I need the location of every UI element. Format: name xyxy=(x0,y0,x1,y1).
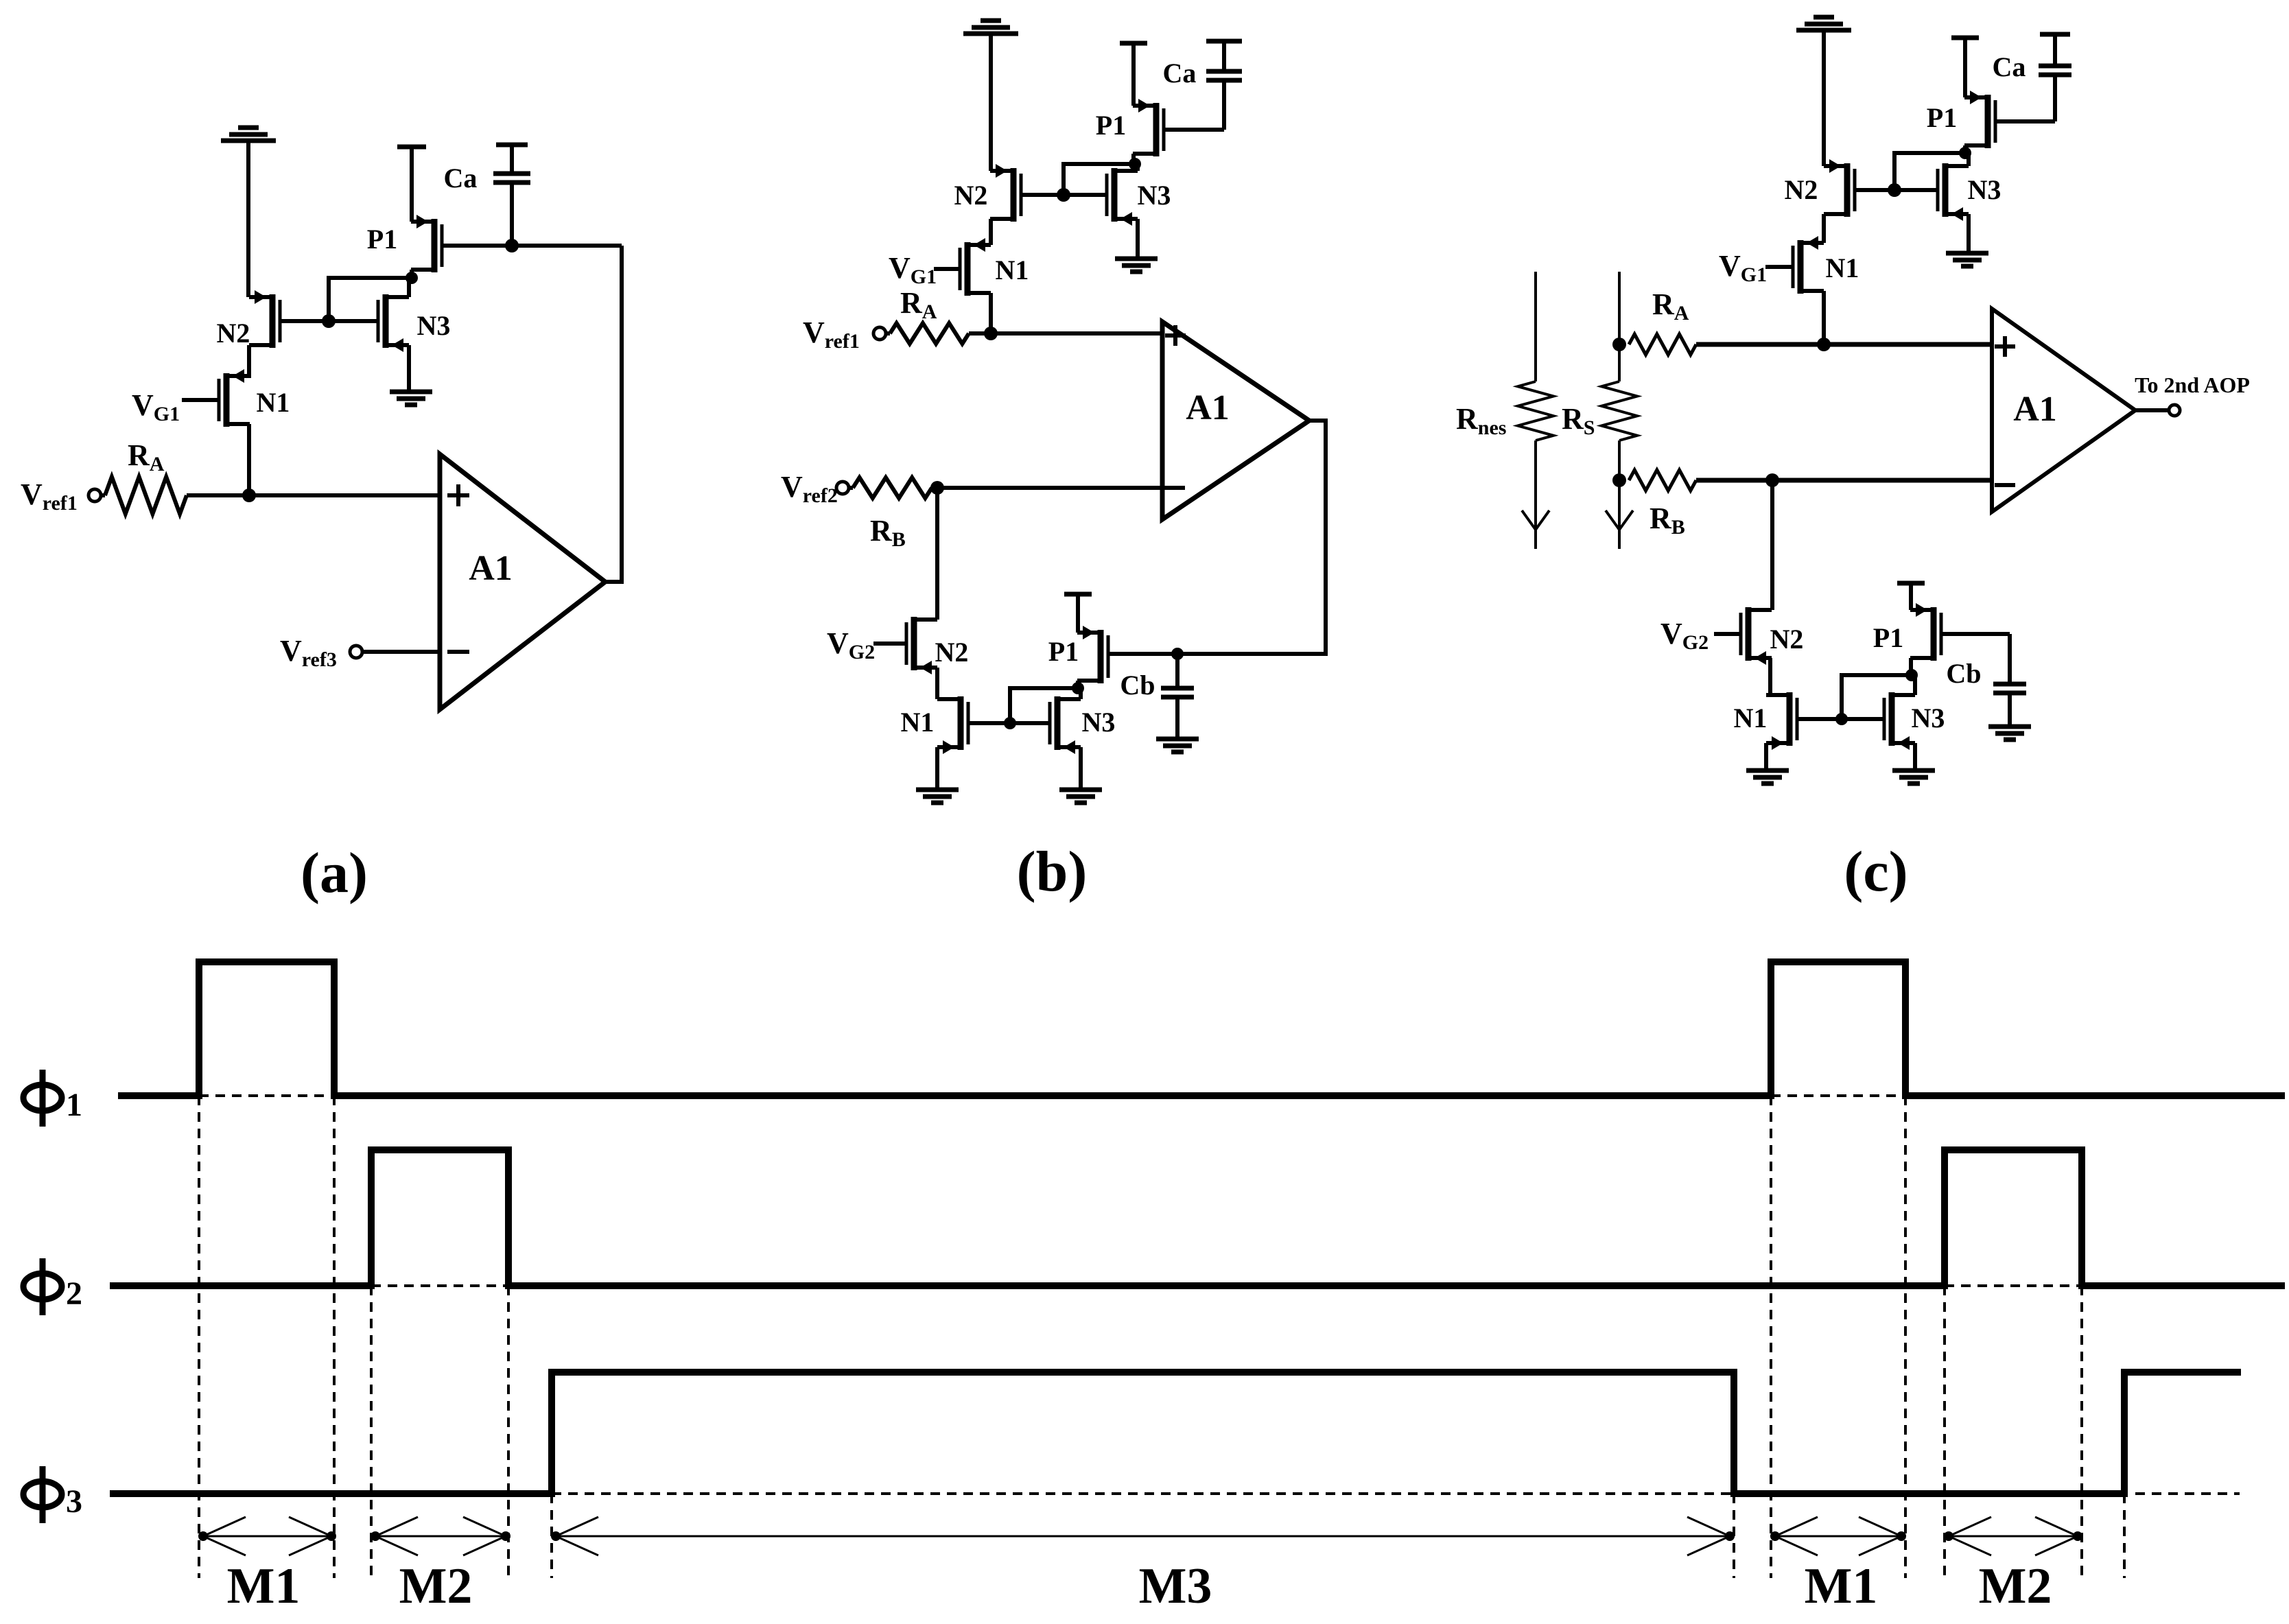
transistor P1 top (c) xyxy=(1964,91,1995,148)
ground under Cb (c) xyxy=(1988,727,2031,740)
terminal Vref3 (a) xyxy=(350,646,362,658)
dashed marker line at phi1 pulse1 fall xyxy=(333,1096,336,1578)
svg-text:Ca: Ca xyxy=(1163,58,1197,89)
label N1 top (c) xyxy=(1826,252,1859,283)
label A1 (a) xyxy=(469,549,513,588)
resistor RB (c) xyxy=(1629,470,1696,491)
svg-text:N3: N3 xyxy=(1082,707,1116,738)
svg-text:P1: P1 xyxy=(1873,622,1903,653)
wire - N3 drain up to node (c) xyxy=(1913,675,1917,695)
terminal Vref1 (a) xyxy=(89,489,101,502)
wire - P1 source up to supply (c) xyxy=(1963,40,1967,97)
ground under N3 bottom (b) xyxy=(1059,790,1102,803)
wire - N3 drain up to node (b) xyxy=(1079,688,1083,699)
power rail symbol (inverted ground) top of (a) xyxy=(221,128,276,141)
label N1 bottom (c) xyxy=(1734,703,1768,733)
svg-text:Cb: Cb xyxy=(1120,670,1155,701)
op-amp A1 (b) xyxy=(1162,322,1309,519)
transistor N1 bottom (c) xyxy=(1766,692,1797,750)
label N1 bottom (b) xyxy=(901,707,935,738)
dashed marker line at phi1 pulse2 rise xyxy=(1770,1096,1772,1578)
supply T-bar above P1 top (c) xyxy=(1951,36,1979,40)
svg-text:Ca: Ca xyxy=(444,163,478,193)
svg-text:P1: P1 xyxy=(1927,102,1957,133)
label phi1 xyxy=(23,1070,82,1127)
wire - VG2 to N2 gate (b) xyxy=(873,642,906,646)
wire - gate node up and over to P1 drain (a) xyxy=(329,278,412,321)
wire - op-amp output feedback down to bottom block (b) xyxy=(1108,421,1326,654)
wire - N1 source to ground (b) xyxy=(935,747,939,788)
supply T-bar above Ca (a) xyxy=(496,143,528,148)
wire - rail to N2 drain (a) xyxy=(246,141,250,297)
label N3 bottom (c) xyxy=(1912,703,1945,733)
terminal Vref1 (b) xyxy=(873,327,886,340)
label Vref1 (b) xyxy=(803,316,860,353)
dashed marker line at phi3 second rise xyxy=(2123,1494,2126,1578)
wire - N3 source down to ground (c) xyxy=(1967,214,1971,251)
label RA (b) xyxy=(900,286,937,323)
label P1 top (b) xyxy=(1096,110,1126,141)
svg-text:2: 2 xyxy=(66,1275,82,1312)
wire - P1 gate to Cb (c) xyxy=(1941,632,2010,636)
wire - RB node down to N2 drain (b) xyxy=(935,488,939,620)
label N1 top (b) xyxy=(996,255,1029,285)
svg-text:N1: N1 xyxy=(901,707,935,738)
dashed marker line at phi2 pulse1 fall xyxy=(507,1286,510,1578)
label RA (c) xyxy=(1652,287,1689,325)
resistor Rnes (c) xyxy=(1518,272,1553,549)
dashed marker line at phi3 fall xyxy=(1733,1494,1735,1578)
transistor N2 top (b) xyxy=(990,164,1021,222)
wire - N1 source to ground (c) xyxy=(1764,743,1768,768)
wire - node to op-amp + input (b) xyxy=(969,331,1162,336)
wire - N2 source to N1 drain (a) xyxy=(247,345,251,378)
label VG2 (c) xyxy=(1660,617,1709,654)
supply T-bar above P1 (a) xyxy=(397,145,426,150)
svg-text:M2: M2 xyxy=(399,1558,473,1614)
wire - minus node down to N2 drain (c) xyxy=(1770,480,1774,610)
caption (c) xyxy=(1844,840,1907,904)
transistor N1 (a) xyxy=(219,369,250,427)
ground under N3 top (c) xyxy=(1946,253,1988,266)
wire - N3 source down to ground (a) xyxy=(407,345,411,390)
label RS (c) xyxy=(1562,402,1595,439)
wire - N3 source to ground (c) xyxy=(1913,743,1917,768)
junction dot RA node (c) xyxy=(1612,338,1626,351)
ground under N3 (a) xyxy=(390,392,432,405)
power rail symbol (inverted ground) top of (b) xyxy=(963,21,1018,34)
svg-text:N1: N1 xyxy=(1734,703,1768,733)
svg-text:N1: N1 xyxy=(257,387,290,418)
wire - RB node to op-amp - input (b) xyxy=(932,486,1162,490)
svg-text:N2: N2 xyxy=(217,318,250,349)
svg-text:(a): (a) xyxy=(301,841,368,905)
svg-text:Cb: Cb xyxy=(1946,658,1981,689)
label RA (a) xyxy=(128,438,165,475)
transistor N3 bottom (b) xyxy=(1050,696,1081,754)
wire - VG1 to N1 gate (c) xyxy=(1765,265,1793,269)
wire - N3 drain up (a) xyxy=(407,278,411,297)
label To 2nd AOP (c) xyxy=(2135,373,2250,397)
svg-text:N1: N1 xyxy=(1826,252,1859,283)
svg-text:(b): (b) xyxy=(1017,840,1088,904)
transistor N2 bottom (b) xyxy=(906,617,937,674)
wire - N2 source to N1 drain (c) xyxy=(1822,214,1826,243)
label Ca (b) xyxy=(1163,58,1197,89)
svg-text:A1: A1 xyxy=(469,549,513,588)
transistor N3 top (b) xyxy=(1107,168,1138,226)
transistor N1 bottom (b) xyxy=(937,696,968,754)
wire - N1 source down to + node (c) xyxy=(1822,291,1826,344)
label Rnes (c) xyxy=(1456,402,1506,439)
measurement arrow M2 xyxy=(371,1517,510,1555)
supply T-bar above P1 bottom (b) xyxy=(1064,592,1092,597)
label Ca (a) xyxy=(444,163,478,193)
resistor RB (b) xyxy=(849,478,932,498)
measurement arrow M3 xyxy=(551,1517,1735,1555)
wire - P1 drain down to node (b) xyxy=(1131,154,1136,164)
label P1 bottom (b) xyxy=(1048,636,1079,667)
capacitor Cb (b) xyxy=(1161,648,1194,737)
wire - RB to op-amp - input (c) xyxy=(1696,478,1992,483)
supply T-bar above Ca (c) xyxy=(2040,32,2070,37)
wire - N2 source to N1 drain (b) xyxy=(989,219,993,245)
transistor N3 (a) xyxy=(378,294,409,352)
wire - rail to N2 drain (c) xyxy=(1822,30,1826,166)
resistor RA (c) xyxy=(1629,334,1696,355)
label N3 (a) xyxy=(417,310,451,341)
measurement arrow M2 second xyxy=(1944,1517,2082,1555)
label N2 top (b) xyxy=(954,180,988,211)
capacitor Cb (c) xyxy=(1993,634,2026,725)
svg-text:P1: P1 xyxy=(367,224,397,255)
junction dot gate node (a) xyxy=(322,314,336,328)
capacitor Ca (b) xyxy=(1206,43,1242,130)
wire - VG1 to N1 gate (a) xyxy=(182,398,219,402)
label Ca (c) xyxy=(1993,51,2026,82)
wire - P1 gate to Ca (b) xyxy=(1164,128,1224,132)
label RB (c) xyxy=(1650,502,1685,539)
svg-text:N1: N1 xyxy=(996,255,1029,285)
transistor N1 top (c) xyxy=(1793,236,1824,294)
phi2 dashed baseline under pulses xyxy=(371,1284,2082,1287)
ground under N3 (b) xyxy=(1115,259,1158,272)
transistor P1 (a) xyxy=(411,215,442,272)
transistor N2 (a) xyxy=(249,290,280,348)
transistor P1 bottom (b) xyxy=(1077,626,1108,683)
label P1 top (c) xyxy=(1927,102,1957,133)
wire - gate node N2-N3 (a) xyxy=(280,319,378,323)
wire - N3 drain up (c) xyxy=(1967,153,1971,166)
junction dot - node (c) xyxy=(1765,473,1779,487)
junction dot node (b) xyxy=(984,327,998,340)
wire - P1 drain down (b) xyxy=(1072,681,1084,694)
wire - RA to op-amp + input (c) xyxy=(1696,342,1992,347)
wire - P1 gate to Ca (c) xyxy=(1995,119,2055,123)
label A1 (b) xyxy=(1186,388,1230,427)
transistor N2 top (c) xyxy=(1824,159,1855,217)
transistor N1 top (b) xyxy=(960,238,991,296)
gate loop bottom (b) xyxy=(968,688,1078,729)
wire - N2 source to N1 drain (b) xyxy=(935,668,939,699)
junction dot RB node (b) xyxy=(930,481,944,495)
label phi2 xyxy=(23,1258,82,1315)
label Vref1 (a) xyxy=(21,478,78,515)
transistor N3 top (c) xyxy=(1938,163,1969,221)
svg-text:N2: N2 xyxy=(1770,624,1804,655)
wire - N3 drain up (b) xyxy=(1136,164,1140,171)
junction dot RB node (c) xyxy=(1612,473,1626,487)
svg-text:N2: N2 xyxy=(935,637,969,668)
wire - P1 drain down to node (c) xyxy=(1963,145,1967,153)
caption (b) xyxy=(1017,840,1088,904)
wire - VG1 to N1 gate (b) xyxy=(934,267,960,271)
junction node at N1 source / RA (a) xyxy=(242,489,256,502)
label Cb (b) xyxy=(1120,670,1155,701)
svg-text:M1: M1 xyxy=(1805,1558,1878,1614)
dashed marker line at phi1 pulse1 rise xyxy=(198,1096,200,1578)
caption (a) xyxy=(301,841,368,905)
ground under N1 bottom (c) xyxy=(1746,770,1789,784)
svg-text:1: 1 xyxy=(66,1087,82,1123)
terminal Vref2 (b) xyxy=(836,482,849,494)
transistor P1 top (b) xyxy=(1133,99,1164,156)
label VG1 (a) xyxy=(132,388,180,425)
svg-text:N2: N2 xyxy=(1785,174,1818,205)
label M3 xyxy=(1139,1558,1212,1614)
label Cb (c) xyxy=(1946,658,1981,689)
label VG1 (b) xyxy=(889,251,937,288)
measurement arrow M1 xyxy=(198,1517,336,1555)
wire - P1 source up to supply (b) xyxy=(1131,45,1136,106)
label Vref2 (b) xyxy=(781,470,838,507)
wire - feedback from op-amp output (a) xyxy=(605,246,622,582)
svg-text:M3: M3 xyxy=(1139,1558,1212,1614)
svg-text:3: 3 xyxy=(66,1483,82,1520)
svg-text:A1: A1 xyxy=(1186,388,1230,427)
supply T-bar above P1 (b) xyxy=(1120,41,1147,46)
svg-text:N2: N2 xyxy=(954,180,988,211)
measurement arrow M1 second xyxy=(1770,1517,1906,1555)
svg-text:M1: M1 xyxy=(227,1558,301,1614)
label N3 bottom (b) xyxy=(1082,707,1116,738)
svg-text:N3: N3 xyxy=(1968,174,2002,205)
phi1 dashed baseline under pulses xyxy=(199,1094,1905,1097)
wire - N3 source to ground (b) xyxy=(1079,747,1083,788)
svg-text:N3: N3 xyxy=(1912,703,1945,733)
wire - N1 source down to node (b) xyxy=(989,293,993,333)
svg-text:P1: P1 xyxy=(1096,110,1126,141)
phi2 waveform xyxy=(110,1150,2285,1286)
label M1 xyxy=(227,1558,301,1614)
junction dot + node (c) xyxy=(1817,338,1831,351)
label RB (b) xyxy=(870,514,906,551)
transistor N2 bottom (c) xyxy=(1741,607,1772,665)
label M2 xyxy=(399,1558,473,1614)
wire - P1 source up to supply (a) xyxy=(410,147,414,222)
phi3 dashed baseline under high segments xyxy=(552,1492,2240,1495)
wire - P1 source to supply (b) xyxy=(1076,596,1080,633)
label M2 second xyxy=(1979,1558,2052,1614)
op-amp A1 (c) xyxy=(1992,309,2135,512)
transistor N3 bottom (c) xyxy=(1884,692,1915,750)
label N3 top (c) xyxy=(1968,174,2002,205)
label M1 second xyxy=(1805,1558,1878,1614)
label N3 top (b) xyxy=(1138,180,1171,211)
svg-text:N3: N3 xyxy=(417,310,451,341)
resistor RA (b) xyxy=(886,323,969,344)
capacitor Ca (c) xyxy=(2039,36,2071,121)
supply T-bar above Ca (b) xyxy=(1206,39,1242,44)
wire - RA to op-amp + input (a) xyxy=(187,493,440,497)
phi1 waveform xyxy=(118,962,2285,1096)
wire - VG2 to N2 gate (c) xyxy=(1714,632,1741,636)
label VG1 (c) xyxy=(1719,249,1767,286)
wire - P1 gate to Ca node and feedback (a) xyxy=(442,244,622,248)
gate loop bottom (c) xyxy=(1797,669,1918,725)
label phi3 xyxy=(23,1466,82,1523)
gate node and loop (b) xyxy=(1021,158,1141,202)
wire - N3 source down to ground (b) xyxy=(1136,219,1140,257)
label N2 top (c) xyxy=(1785,174,1818,205)
dashed marker line at phi2 pulse1 rise xyxy=(370,1286,373,1578)
terminal output To 2nd AOP (c) xyxy=(2169,405,2180,416)
wire - rail to N2 drain (b) xyxy=(989,34,993,171)
ground under Cb (b) xyxy=(1156,739,1199,752)
label P1 (a) xyxy=(367,224,397,255)
dashed marker line at phi3 rise xyxy=(550,1494,553,1578)
label N2 bottom (c) xyxy=(1770,624,1804,655)
power rail symbol (inverted ground) top of (c) xyxy=(1796,17,1851,30)
dashed marker line at phi1 pulse2 fall xyxy=(1904,1096,1907,1578)
resistor RA (a) xyxy=(101,477,187,514)
supply T-bar above P1 bottom (c) xyxy=(1897,581,1925,586)
dashed marker line at phi2 pulse2 fall xyxy=(2080,1286,2083,1578)
label P1 bottom (c) xyxy=(1873,622,1903,653)
svg-text:A1: A1 xyxy=(2013,390,2057,429)
wire - P1 drain down to node (a) xyxy=(410,270,414,278)
label N2 (a) xyxy=(217,318,250,349)
svg-text:P1: P1 xyxy=(1048,636,1079,667)
svg-text:Ca: Ca xyxy=(1993,51,2026,82)
wire - N1 source down to input node (a) xyxy=(247,424,251,495)
label VG2 (b) xyxy=(827,626,875,663)
ground under N3 bottom (c) xyxy=(1892,770,1935,784)
label N1 (a) xyxy=(257,387,290,418)
junction dot Ca node (a) xyxy=(505,239,519,252)
svg-text:(c): (c) xyxy=(1844,840,1907,904)
wire - P1 drain down to node (c) xyxy=(1909,658,1913,675)
svg-text:N3: N3 xyxy=(1138,180,1171,211)
gate node and loop top (c) xyxy=(1853,147,1971,197)
label A1 (c) xyxy=(2013,390,2057,429)
op-amp A1 (a) xyxy=(440,454,605,709)
wire - Vref3 to op-amp - input (a) xyxy=(362,650,440,654)
wire - N2 source to N1 drain (c) xyxy=(1768,658,1772,695)
transistor P1 bottom (c) xyxy=(1910,603,1941,661)
phi3 waveform xyxy=(110,1372,2241,1494)
dashed marker line at phi2 pulse2 rise xyxy=(1943,1286,1946,1578)
label Vref3 (a) xyxy=(280,634,337,671)
wire - op-amp output to terminal (c) xyxy=(2135,408,2169,412)
svg-text:M2: M2 xyxy=(1979,1558,2052,1614)
wire - P1 source to supply (c) xyxy=(1909,585,1913,610)
label N2 bottom (b) xyxy=(935,637,969,668)
svg-text:To 2nd AOP: To 2nd AOP xyxy=(2135,373,2250,397)
ground under N1 bottom (b) xyxy=(916,790,959,803)
junction dot P1 drain node (a) xyxy=(406,272,418,284)
capacitor Ca (a) xyxy=(493,145,530,246)
resistor RS vertical (c) xyxy=(1601,272,1637,549)
